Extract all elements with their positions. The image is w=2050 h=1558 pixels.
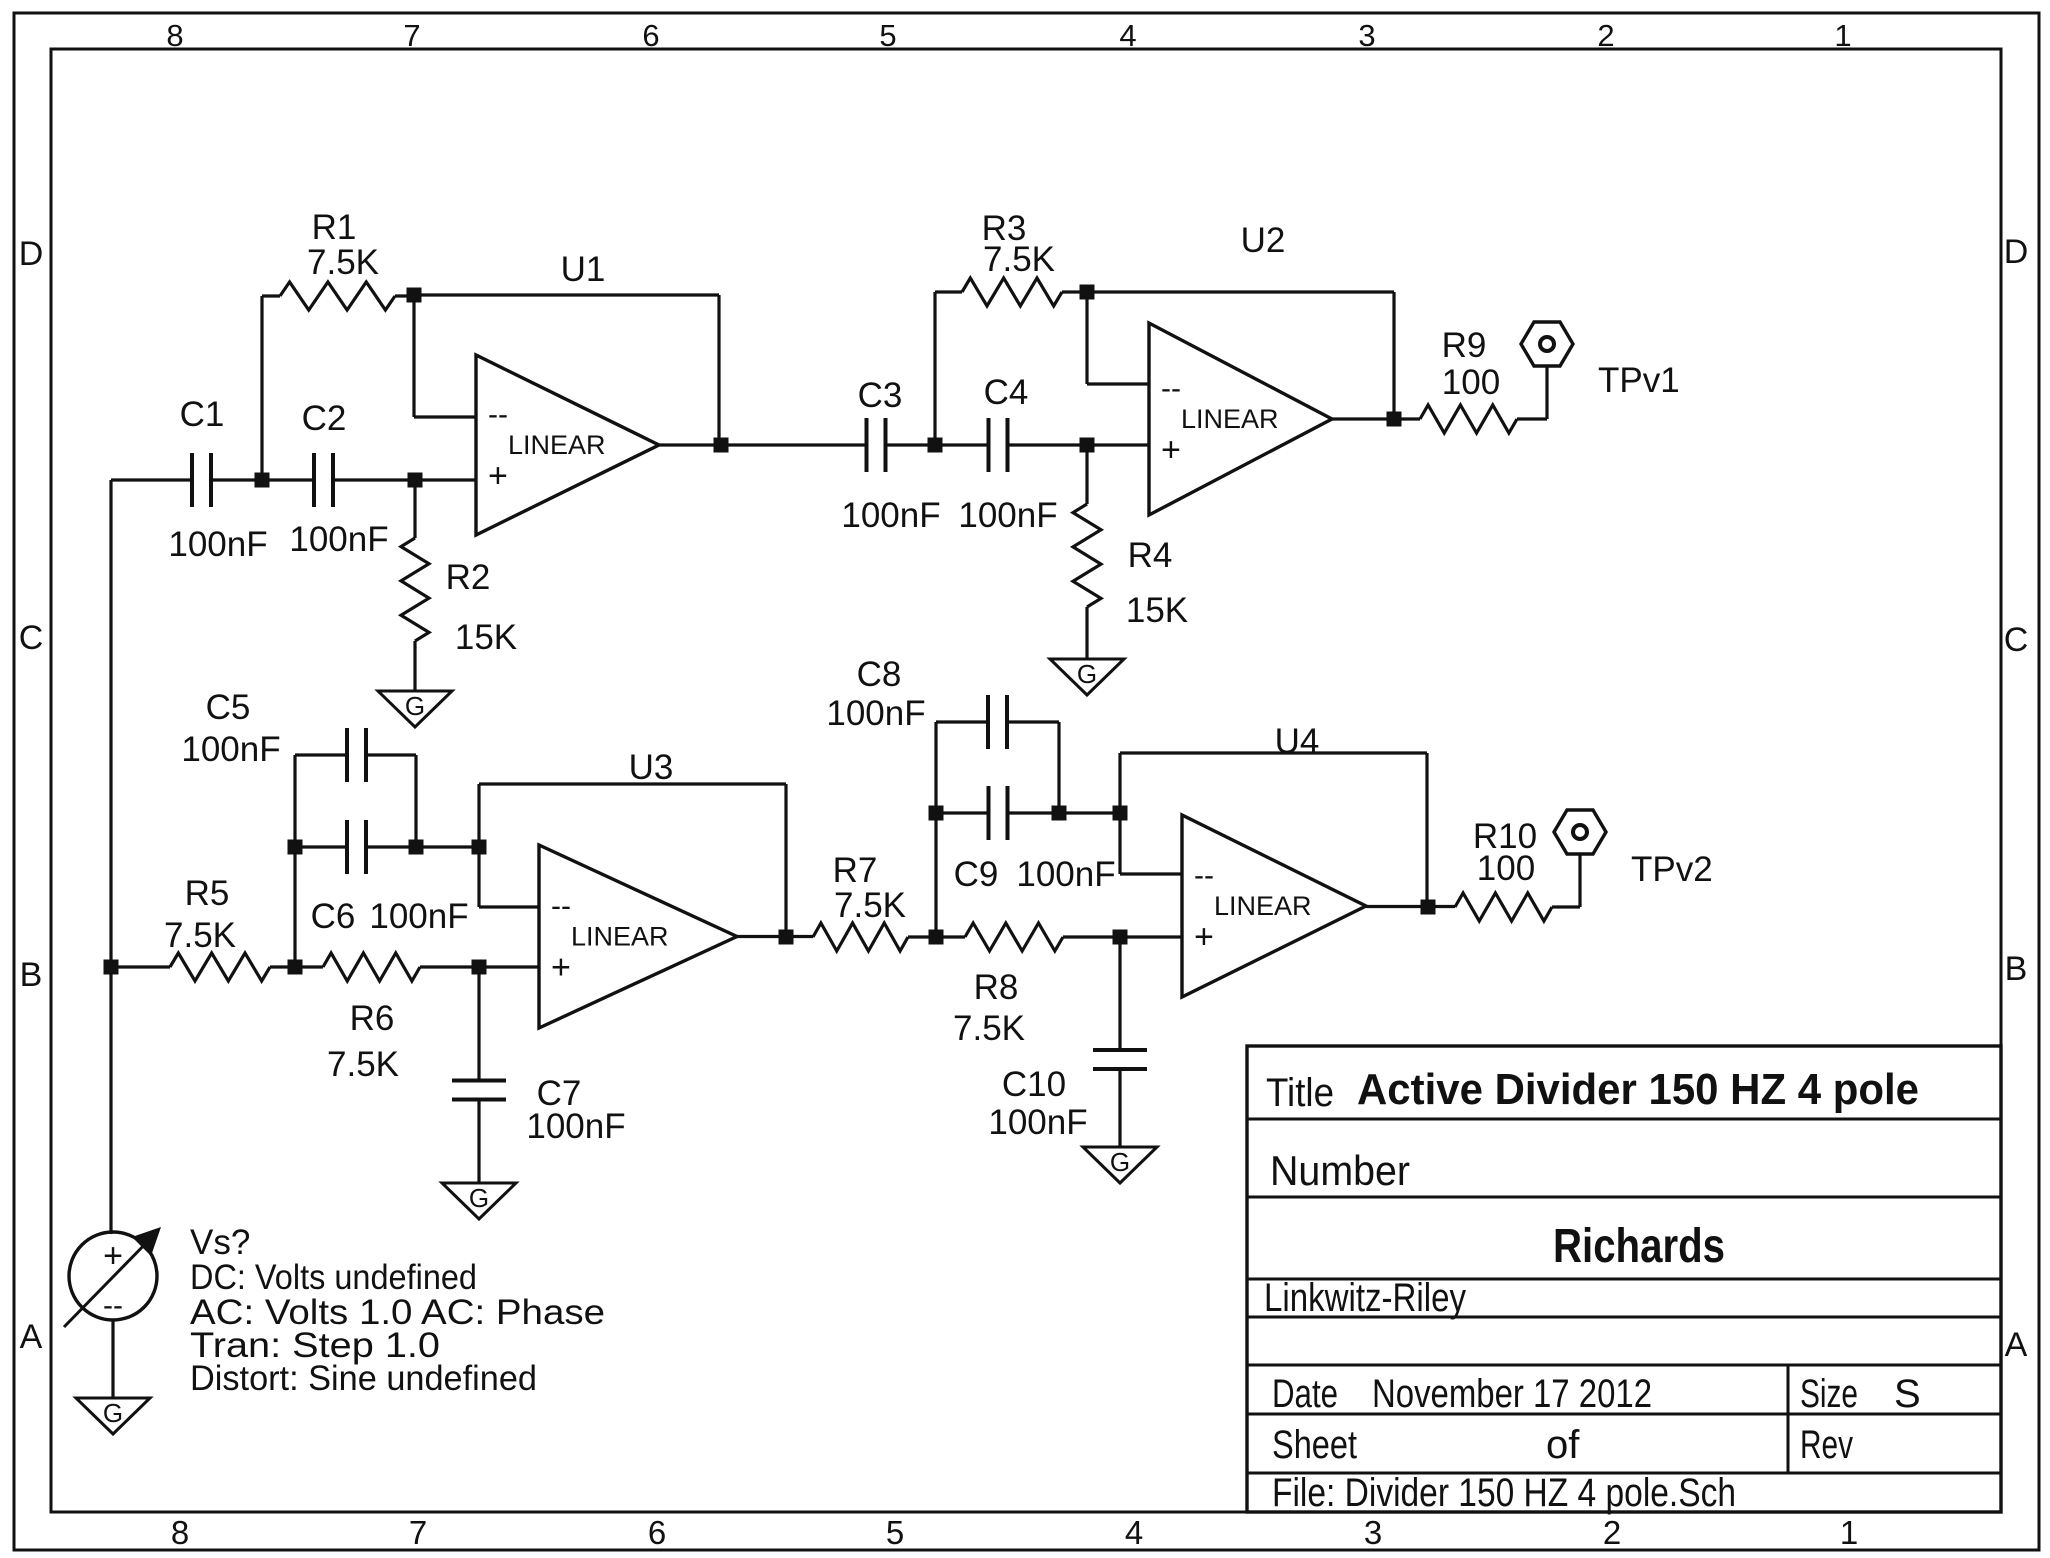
wire U4 output <box>1366 905 1455 908</box>
svg-text:R2: R2 <box>446 558 491 597</box>
node R7-R8 junction <box>929 930 944 945</box>
title block Title row <box>1266 1065 1919 1115</box>
svg-text:C: C <box>19 619 44 657</box>
svg-text:15K: 15K <box>455 618 517 657</box>
wire U2 feedback top <box>1087 290 1394 293</box>
wire U4 feedback top <box>1120 751 1427 754</box>
svg-text:R9: R9 <box>1442 326 1487 365</box>
label R4 <box>1128 536 1173 575</box>
svg-text:6: 6 <box>642 18 659 53</box>
capacitor C10 <box>1093 1050 1147 1069</box>
wire C10 to ground <box>1118 1069 1121 1147</box>
label C10 <box>1002 1065 1066 1104</box>
node C9 right junction <box>1052 806 1067 821</box>
label R3 value 7.5K <box>983 240 1055 279</box>
title block Size cell <box>1800 1372 1921 1416</box>
label C5 <box>206 688 251 727</box>
svg-text:LINEAR: LINEAR <box>1181 404 1279 434</box>
resistor R4 <box>1073 445 1101 659</box>
svg-text:100nF: 100nF <box>1016 855 1115 894</box>
wire U3 feedback right <box>784 784 787 937</box>
svg-text:Richards: Richards <box>1553 1220 1725 1273</box>
svg-text:R6: R6 <box>350 999 395 1038</box>
wire U3 minus leg <box>479 847 539 907</box>
node U3 minus junction <box>472 840 487 855</box>
title block Rev cell <box>1800 1423 1853 1467</box>
label U1 <box>561 250 606 289</box>
svg-text:4: 4 <box>1119 18 1136 53</box>
wire C9 left <box>936 811 989 814</box>
label U2 <box>1241 221 1286 260</box>
svg-text:G: G <box>1077 659 1097 689</box>
node R5-R6 junction <box>288 960 303 975</box>
wire C4 to U2 plus input <box>1007 443 1149 446</box>
border column label 5 top <box>879 18 896 53</box>
border row label D left <box>19 235 44 273</box>
svg-text:100: 100 <box>1477 849 1535 888</box>
node C2 output junction <box>408 473 423 488</box>
label C7 value 100nF <box>526 1107 625 1146</box>
border column label 2 bottom <box>1603 1514 1621 1551</box>
capacitor C9 <box>989 786 1008 840</box>
capacitor C3 <box>867 418 886 472</box>
svg-text:C5: C5 <box>206 688 251 727</box>
label TPv2 <box>1631 850 1713 889</box>
svg-text:R5: R5 <box>185 874 230 913</box>
label R4 value 15K <box>1126 591 1188 630</box>
svg-text:8: 8 <box>166 18 183 53</box>
svg-text:C9: C9 <box>954 855 999 894</box>
label Vs name <box>190 1223 250 1262</box>
border row label B left <box>20 956 43 994</box>
border column label 5 bottom <box>886 1514 904 1551</box>
wire U1 output <box>659 443 740 446</box>
capacitor C5 <box>347 728 366 782</box>
border column label 1 top <box>1834 18 1851 53</box>
label R10 value 100 <box>1477 849 1535 888</box>
label R8 <box>974 968 1019 1007</box>
node C8-C9 left junction <box>929 806 944 821</box>
node R3 feedback junction <box>1080 285 1095 300</box>
node C4 output junction <box>1080 438 1095 453</box>
node U4 minus junction <box>1113 806 1128 821</box>
svg-text:7: 7 <box>409 1514 427 1551</box>
wire C5 top right <box>366 753 416 756</box>
svg-text:A: A <box>2005 1326 2028 1364</box>
svg-text:G: G <box>469 1183 489 1213</box>
svg-text:TPv2: TPv2 <box>1631 850 1713 889</box>
svg-text:100nF: 100nF <box>988 1103 1087 1142</box>
ground R2 <box>378 691 452 727</box>
border row label D right <box>2004 233 2029 271</box>
wire R9 to TPv1 <box>1545 366 1548 419</box>
wire C8 top right <box>1008 720 1059 723</box>
svg-text:--: -- <box>1161 372 1181 405</box>
svg-text:C1: C1 <box>180 395 225 434</box>
capacitor C8 <box>988 695 1007 749</box>
ground R4 <box>1050 659 1124 695</box>
svg-text:Distort: Sine undefined: Distort: Sine undefined <box>190 1359 537 1398</box>
border row label A left <box>20 1318 43 1356</box>
label C8 value 100nF <box>826 694 925 733</box>
svg-text:--: -- <box>551 890 571 923</box>
svg-text:DC: Volts undefined: DC: Volts undefined <box>190 1258 477 1297</box>
label C9 <box>954 855 999 894</box>
node C6 right junction <box>409 840 424 855</box>
label R10 <box>1473 817 1537 856</box>
svg-text:LINEAR: LINEAR <box>1214 891 1312 921</box>
svg-text:Number: Number <box>1270 1147 1410 1194</box>
label R5 <box>185 874 230 913</box>
label C1 value 100nF <box>168 525 267 564</box>
label C2 value 100nF <box>289 520 388 559</box>
wire R6 to U3 plus input <box>479 965 539 968</box>
label C9 value 100nF <box>1016 855 1115 894</box>
svg-text:D: D <box>2004 233 2029 271</box>
wire U3 output <box>737 935 813 938</box>
wire U2 output <box>1332 417 1420 420</box>
resistor R10 <box>1455 893 1580 921</box>
wire R3 left leg <box>933 292 936 445</box>
capacitor C7 <box>452 1081 506 1100</box>
node B input junction <box>104 960 119 975</box>
svg-text:Title: Title <box>1266 1071 1334 1115</box>
title block Number row <box>1270 1147 1410 1194</box>
wire U2 minus leg <box>1087 292 1149 384</box>
svg-text:C8: C8 <box>857 655 902 694</box>
title block File row <box>1272 1471 1736 1515</box>
svg-text:--: -- <box>103 1289 123 1322</box>
wire U1 minus leg <box>414 295 476 417</box>
border column label 7 bottom <box>409 1514 427 1551</box>
wire U4 feedback left <box>1118 753 1121 813</box>
wire C8-C9 left leg <box>934 722 937 937</box>
svg-text:1: 1 <box>1840 1514 1858 1551</box>
border column label 3 bottom <box>1364 1514 1382 1551</box>
wire C8 top left <box>936 720 987 723</box>
svg-text:Sheet: Sheet <box>1272 1423 1357 1467</box>
svg-text:November 17 2012: November 17 2012 <box>1372 1372 1652 1416</box>
label R2 <box>446 558 491 597</box>
label U4 <box>1275 722 1320 761</box>
label C2 <box>302 399 347 438</box>
svg-text:7: 7 <box>403 18 420 53</box>
border row label B right <box>2005 950 2028 988</box>
wire C1 to node <box>211 478 314 481</box>
label C6 <box>311 897 356 936</box>
node U1 output junction <box>714 438 729 453</box>
label Vs Distort <box>190 1359 537 1398</box>
svg-text:R4: R4 <box>1128 536 1173 575</box>
svg-text:File: Divider 150 HZ 4 pole.S: File: Divider 150 HZ 4 pole.Sch <box>1272 1471 1736 1515</box>
svg-text:LINEAR: LINEAR <box>571 922 669 952</box>
svg-text:R8: R8 <box>974 968 1019 1007</box>
wire C3 to C4 <box>887 443 989 446</box>
op-amp U3 <box>539 845 737 1028</box>
wire C5 right leg <box>414 755 417 847</box>
svg-text:--: -- <box>1194 859 1214 892</box>
label R7 value 7.5K <box>834 886 906 925</box>
svg-text:B: B <box>20 956 43 994</box>
wire input bus vertical <box>109 480 112 1234</box>
wire C8 right leg <box>1057 722 1060 813</box>
wire U2 feedback right <box>1392 292 1395 419</box>
svg-text:of: of <box>1546 1423 1580 1467</box>
wire C10 top <box>1118 937 1121 1050</box>
label R9 value 100 <box>1442 363 1500 402</box>
svg-text:3: 3 <box>1358 18 1375 53</box>
node U3 output junction <box>779 930 794 945</box>
wire U4 minus leg <box>1120 813 1182 874</box>
svg-text:7.5K: 7.5K <box>307 243 379 282</box>
svg-text:C4: C4 <box>984 373 1029 412</box>
svg-text:Linkwitz-Riley: Linkwitz-Riley <box>1264 1276 1466 1320</box>
wire U1 feedback right <box>717 295 720 445</box>
label C8 <box>857 655 902 694</box>
label C4 value 100nF <box>958 496 1057 535</box>
svg-text:7.5K: 7.5K <box>327 1045 399 1084</box>
svg-text:100nF: 100nF <box>841 496 940 535</box>
svg-text:100nF: 100nF <box>168 525 267 564</box>
svg-text:3: 3 <box>1364 1514 1382 1551</box>
border column label 3 top <box>1358 18 1375 53</box>
svg-text:100nF: 100nF <box>289 520 388 559</box>
svg-text:C10: C10 <box>1002 1065 1066 1104</box>
border column label 6 bottom <box>648 1514 666 1551</box>
svg-text:5: 5 <box>879 18 896 53</box>
label C6 value 100nF <box>369 897 468 936</box>
border column label 4 bottom <box>1125 1514 1143 1551</box>
label R8 value 7.5K <box>953 1009 1025 1048</box>
svg-text:+: + <box>551 949 571 987</box>
svg-text:U2: U2 <box>1241 221 1286 260</box>
label R6 <box>350 999 395 1038</box>
wire C5 top left <box>295 753 347 756</box>
resistor R6 <box>295 953 479 981</box>
svg-text:5: 5 <box>886 1514 904 1551</box>
capacitor C6 <box>347 820 366 874</box>
label C10 value 100nF <box>988 1103 1087 1142</box>
svg-text:U3: U3 <box>629 748 674 787</box>
svg-text:100: 100 <box>1442 363 1500 402</box>
svg-text:7.5K: 7.5K <box>164 916 236 955</box>
wire Vs to ground <box>111 1320 114 1398</box>
op-amp U2 <box>1149 323 1332 515</box>
svg-text:C6: C6 <box>311 897 356 936</box>
border column label 6 top <box>642 18 659 53</box>
resistor R3 <box>935 278 1087 306</box>
label R6 value 7.5K <box>327 1045 399 1084</box>
node C5-C6 left junction <box>288 840 303 855</box>
resistor R9 <box>1420 405 1547 433</box>
svg-text:LINEAR: LINEAR <box>508 430 606 460</box>
svg-text:C3: C3 <box>858 376 903 415</box>
wire U1 feedback top <box>414 293 719 296</box>
svg-text:2: 2 <box>1597 18 1614 53</box>
svg-text:A: A <box>20 1318 43 1356</box>
svg-text:8: 8 <box>171 1514 189 1551</box>
svg-text:U4: U4 <box>1275 722 1320 761</box>
border column label 8 top <box>166 18 183 53</box>
op-amp U4 <box>1182 815 1366 997</box>
svg-text:100nF: 100nF <box>526 1107 625 1146</box>
node C1-C2 junction <box>255 473 270 488</box>
node U4 output junction <box>1421 900 1436 915</box>
op-amp U1 <box>476 355 659 535</box>
label TPv1 <box>1598 361 1680 400</box>
svg-text:100nF: 100nF <box>181 730 280 769</box>
svg-text:6: 6 <box>648 1514 666 1551</box>
svg-text:--: -- <box>488 398 508 431</box>
wire U3 feedback top <box>479 782 786 785</box>
resistor R2 <box>401 480 429 691</box>
wire input row to C1 <box>111 478 192 481</box>
svg-text:Size: Size <box>1800 1372 1858 1416</box>
svg-text:7.5K: 7.5K <box>983 240 1055 279</box>
svg-text:B: B <box>2005 950 2028 988</box>
border column label 4 top <box>1119 18 1136 53</box>
wire C6 right <box>366 845 479 848</box>
svg-text:4: 4 <box>1125 1514 1143 1551</box>
border column label 8 bottom <box>171 1514 189 1551</box>
svg-text:2: 2 <box>1603 1514 1621 1551</box>
svg-text:1: 1 <box>1834 18 1851 53</box>
label R2 value 15K <box>455 618 517 657</box>
voltage source minus <box>103 1289 123 1322</box>
svg-text:Rev: Rev <box>1800 1423 1853 1467</box>
wire R10 to TPv2 <box>1578 854 1581 907</box>
resistor R7 <box>813 923 936 951</box>
label C4 <box>984 373 1029 412</box>
svg-text:G: G <box>1110 1147 1130 1177</box>
ground Vs <box>76 1398 150 1434</box>
svg-text:100nF: 100nF <box>369 897 468 936</box>
resistor R1 <box>262 282 414 310</box>
capacitor C2 <box>314 453 333 507</box>
border column label 2 top <box>1597 18 1614 53</box>
wire C6 left <box>295 845 347 848</box>
wire R1 left leg <box>260 296 263 480</box>
svg-text:Date: Date <box>1272 1372 1338 1416</box>
wire U4 feedback right <box>1425 753 1428 908</box>
label U3 <box>629 748 674 787</box>
title block Linkwitz-Riley row <box>1264 1276 1466 1320</box>
wire C5-C6 left leg <box>293 755 296 967</box>
resistor R5 <box>111 953 295 981</box>
test point TPv2 <box>1554 810 1606 854</box>
label C3 value 100nF <box>841 496 940 535</box>
label C1 <box>180 395 225 434</box>
label C3 <box>858 376 903 415</box>
svg-text:C2: C2 <box>302 399 347 438</box>
voltage source plus <box>103 1237 123 1275</box>
border row label C right <box>2004 621 2029 659</box>
label R7 <box>833 851 878 890</box>
svg-text:15K: 15K <box>1126 591 1188 630</box>
label R1 <box>312 208 357 247</box>
svg-text:R1: R1 <box>312 208 357 247</box>
svg-text:S: S <box>1894 1372 1921 1416</box>
svg-text:100nF: 100nF <box>958 496 1057 535</box>
title block Sheet row <box>1272 1423 1580 1467</box>
capacitor C4 <box>989 418 1008 472</box>
wire R8 to U4 plus input <box>1120 935 1182 938</box>
wire C2 to U1 plus input <box>333 478 476 481</box>
svg-text:+: + <box>488 457 508 495</box>
node R8 output junction <box>1113 930 1128 945</box>
svg-text:C: C <box>2004 621 2029 659</box>
test point TPv1 <box>1521 322 1573 366</box>
label R5 value 7.5K <box>164 916 236 955</box>
label R9 <box>1442 326 1487 365</box>
svg-text:Vs?: Vs? <box>190 1223 250 1262</box>
wire C9 right <box>1007 811 1120 814</box>
svg-text:U1: U1 <box>561 250 606 289</box>
wire C7 to ground <box>477 1099 480 1183</box>
svg-text:D: D <box>19 235 44 273</box>
title block Date row <box>1272 1372 1652 1416</box>
label Vs Tran <box>190 1326 440 1365</box>
node C3-C4 junction <box>928 438 943 453</box>
label R3 <box>982 209 1027 248</box>
svg-text:7.5K: 7.5K <box>834 886 906 925</box>
voltage source Vs circle <box>69 1232 157 1320</box>
svg-text:G: G <box>103 1398 123 1428</box>
voltage source arrow <box>64 1227 161 1327</box>
svg-text:Active Divider 150 HZ 4 pole: Active Divider 150 HZ 4 pole <box>1357 1065 1919 1114</box>
label C5 value 100nF <box>181 730 280 769</box>
label R1 value 7.5K <box>307 243 379 282</box>
svg-text:+: + <box>1194 918 1214 956</box>
ground C7 <box>442 1183 516 1219</box>
node R6 output junction <box>472 960 487 975</box>
svg-text:R7: R7 <box>833 851 878 890</box>
wire U1 output to C3 <box>740 443 865 446</box>
node R1 feedback junction <box>407 288 422 303</box>
title block Richards row <box>1553 1220 1725 1273</box>
svg-text:TPv1: TPv1 <box>1598 361 1680 400</box>
border column label 7 top <box>403 18 420 53</box>
title block frame <box>1247 1046 2001 1512</box>
ground C10 <box>1083 1147 1157 1183</box>
border row label A right <box>2005 1326 2028 1364</box>
label C7 <box>537 1074 582 1113</box>
resistor R8 <box>936 923 1120 951</box>
wire U3 feedback left <box>477 784 480 847</box>
label Vs DC <box>190 1258 477 1297</box>
border column label 1 bottom <box>1840 1514 1858 1551</box>
capacitor C1 <box>192 453 211 507</box>
resistor C7 wire <box>477 967 480 1081</box>
label Vs AC <box>190 1293 605 1332</box>
border row label C left <box>19 619 44 657</box>
svg-text:G: G <box>405 691 425 721</box>
svg-text:100nF: 100nF <box>826 694 925 733</box>
node U2 output junction <box>1387 412 1402 427</box>
svg-text:7.5K: 7.5K <box>953 1009 1025 1048</box>
svg-text:+: + <box>1161 431 1181 469</box>
